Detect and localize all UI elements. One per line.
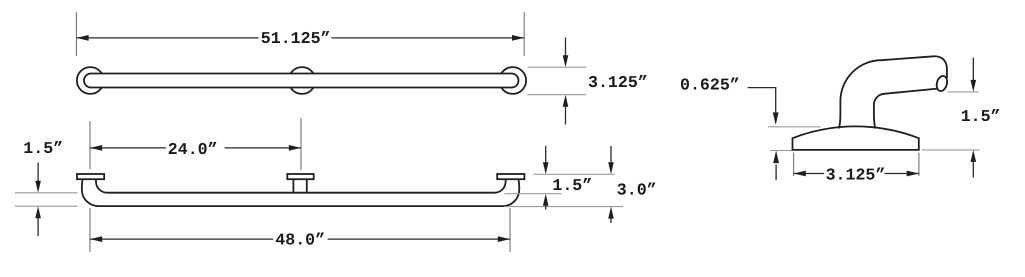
extension line top (3.125 dim) [528, 66, 586, 68]
up arrow (1.5 end view) [972, 161, 974, 178]
mounting plate middle [287, 174, 313, 179]
extension line right (51.125 dim) [523, 12, 525, 56]
extension line middle post (24 dim) [300, 118, 302, 170]
dimension line 3.125 left segment [794, 173, 824, 175]
dimension line 48.0 right segment [328, 238, 510, 240]
flange dome base [793, 126, 919, 149]
extension line dome top (0.625) [768, 126, 821, 128]
grab bar tube top edge with inner bends (side view) [96, 179, 506, 192]
arrowhead left (3.125 base) [794, 171, 806, 177]
arrowhead right (48.0) [498, 236, 510, 242]
arrowhead right (3.125 base) [907, 171, 919, 177]
grab bar tube (plan) [84, 74, 519, 88]
flange circle left [77, 67, 104, 94]
svg-text:3.0”: 3.0” [617, 180, 657, 199]
leader line (0.625) [748, 88, 776, 113]
arrowhead left (48.0) [90, 236, 102, 242]
svg-text:3.125”: 3.125” [588, 73, 648, 92]
extension line top (1.5 dia) [15, 192, 78, 194]
svg-text:48.0”: 48.0” [275, 231, 325, 250]
extension line bottom (3.125 dim) [528, 94, 586, 96]
down arrow (1.5 dia) [37, 163, 39, 182]
dimension line 48.0 left segment [90, 238, 273, 240]
extension line bottom (1.5 dia) [15, 205, 78, 207]
extension line right (48 dim) [509, 208, 511, 252]
extension line middle (1.5 right dim) [505, 193, 562, 195]
svg-text:1.5”: 1.5” [552, 176, 592, 195]
tube inner profile (end view) [874, 89, 938, 129]
up arrow (1.5 right) [545, 205, 547, 209]
up arrow (3.0) [610, 218, 612, 223]
extension line tube bottom (1.5 end view) [948, 91, 979, 93]
extension line left post (24/48 dims) [89, 121, 91, 169]
mounting plate left [77, 174, 104, 179]
tube bottom edge with outer bends (side view) [82, 179, 519, 206]
tube open end ellipse [935, 75, 949, 92]
down arrow (1.5 right) [545, 146, 547, 163]
svg-text:24.0”: 24.0” [168, 140, 218, 159]
tube outer profile (end view) [839, 56, 947, 128]
dimension line 3.125 right segment [885, 173, 919, 175]
down arrow (1.5 end view) [972, 58, 974, 81]
extension line left (51.125 dim) [75, 12, 77, 56]
arrowhead right (24.0) [289, 145, 301, 151]
dimension line 51.125 left segment [76, 37, 258, 39]
up arrow (3.125) [565, 106, 567, 125]
arrowhead right (51.125) [512, 35, 524, 41]
flange circle right [499, 67, 526, 94]
extension line bottom (3.0 right dim) [504, 206, 623, 208]
down arrow (3.0) [610, 146, 612, 163]
svg-text:1.5”: 1.5” [23, 139, 63, 158]
extension line dome bottom (0.625) [770, 150, 792, 152]
svg-text:51.125”: 51.125” [261, 29, 331, 48]
svg-text:1.5”: 1.5” [961, 107, 1001, 126]
extension line left (3.125 base) [793, 153, 795, 176]
up arrow (1.5 dia) [37, 217, 39, 236]
mounting plate right [497, 174, 524, 179]
down arrow (3.125) [565, 38, 567, 57]
middle post stem [292, 179, 294, 193]
dimension line 51.125 right segment [332, 37, 525, 39]
extension line right (3.125 base) [918, 153, 920, 176]
extension line left (48 dim) [89, 208, 91, 252]
arrowhead left (24.0) [90, 145, 102, 151]
svg-text:0.625”: 0.625” [680, 76, 740, 95]
dimension line 24.0 right segment [225, 147, 302, 149]
flange circle middle [289, 67, 316, 94]
arrowhead left (51.125) [76, 35, 88, 41]
extension line top (1.5/3.0 right dims) [534, 173, 615, 175]
dimension line 24.0 left segment [90, 147, 166, 149]
up arrow (0.625) [775, 165, 777, 181]
svg-text:3.125”: 3.125” [826, 166, 886, 185]
extension line wall plane (1.5 end view) [922, 149, 980, 151]
